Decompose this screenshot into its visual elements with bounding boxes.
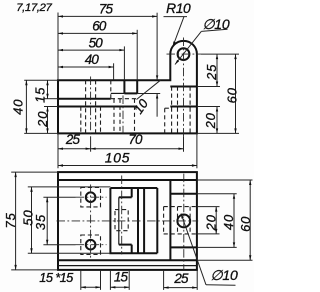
plan dimension 20 (215, 207, 217, 234)
svg-text:15: 15 (114, 269, 129, 284)
dimension 25 bottom (58, 148, 91, 150)
plan extension pocket corner down (163, 270, 165, 290)
front 10-dim leader (137, 80, 161, 99)
plan hole 2 axis h (76, 244, 107, 246)
extension line 75 (156, 13, 158, 81)
plan lug dashed rect (164, 206, 197, 208)
front hidden hole line b (95, 80, 97, 133)
plan central dashed pocket (115, 210, 128, 231)
plan extension 40 bottom (197, 246, 237, 248)
svg-text:60: 60 (238, 216, 253, 232)
plan lug hole hidden b (189, 207, 191, 234)
plan extension top left (11, 171, 58, 173)
front hidden central pocket a (113, 99, 115, 134)
front lug hole (178, 48, 190, 60)
front 20-step edge right part (170, 106, 197, 108)
plan extension slot top left (28, 186, 111, 188)
front central pocket axis (122, 96, 124, 137)
front lug shoulder edge (170, 86, 197, 88)
diameter leader top (175, 31, 201, 64)
extension lug axis down (183, 136, 185, 151)
svg-text:35: 35 (33, 214, 48, 230)
plan extension 60 top (197, 179, 253, 181)
plan lower 60-ext edge (58, 259, 197, 261)
plan lug hole hidden a (177, 207, 179, 234)
plan c-slot corner step b (131, 245, 133, 254)
front lug axis (183, 38, 185, 137)
front hidden lug left edge below shoulder (171, 87, 173, 134)
plan wall edge 157 (156, 188, 158, 253)
plan central pocket axis v (121, 176, 123, 255)
dimension 25 right (216, 54, 218, 86)
extension hole axis right (201, 53, 239, 55)
dimension 75 (58, 15, 157, 17)
svg-text:40: 40 (85, 52, 100, 67)
plan upper inner edge (58, 179, 197, 181)
extension line left edge up (57, 13, 59, 81)
extension line 50 (123, 46, 125, 80)
plan extension slot55 down (128, 270, 130, 290)
front hidden central pocket b (134, 99, 136, 134)
svg-text:25: 25 (65, 132, 81, 147)
svg-text:25: 25 (204, 64, 219, 81)
plan lug hole (177, 215, 190, 228)
front top slot right edge (136, 80, 138, 94)
svg-text:75: 75 (3, 212, 18, 228)
front 15-step edge (58, 98, 111, 100)
plan extension 20 bottom (197, 233, 220, 235)
dimension 60 (58, 32, 137, 34)
dimension 15 left (47, 80, 49, 99)
svg-text:20: 20 (203, 112, 218, 129)
plan hole 2 (86, 240, 96, 250)
plan lower thin edge (58, 265, 197, 267)
front hidden pocket line a (80, 107, 82, 134)
dimension 40 left (25, 80, 27, 133)
plan extension 40 top (197, 193, 237, 195)
svg-text:70: 70 (128, 132, 143, 147)
dimension 20 right (216, 107, 218, 134)
front hidden pocket line b (100, 107, 102, 134)
svg-text:20: 20 (204, 214, 219, 231)
plan dimension 25 (164, 287, 198, 289)
svg-text:∅10: ∅10 (202, 16, 230, 32)
front hidden base hole a (177, 87, 179, 134)
svg-text:40: 40 (10, 99, 25, 115)
plan dimension 75 (15, 172, 17, 270)
plan dimension 15 (110, 286, 129, 288)
dimension 50 (58, 49, 124, 51)
extension left edge down (57, 133, 59, 168)
svg-text:25: 25 (173, 271, 189, 286)
plan extension slot bottom left (28, 252, 111, 254)
plan lug hole axis v (183, 174, 185, 270)
front hidden slot edge 40 (110, 80, 112, 99)
dimension 70 (91, 148, 184, 150)
plan extension hole2 axis left (43, 244, 75, 246)
svg-text:15: 15 (33, 87, 48, 103)
plan extension sq right down (100, 270, 102, 290)
extension 15 left (44, 98, 58, 100)
plan right block 40-line top (170, 193, 197, 195)
plan extension sq left down (80, 270, 82, 290)
svg-text:R10: R10 (166, 1, 191, 16)
svg-text:50: 50 (89, 35, 104, 50)
front view body outline (58, 41, 197, 134)
plan wall edge 144 (143, 188, 145, 253)
plan c-slot step top (119, 196, 132, 198)
plan c-slot step bottom (119, 244, 132, 246)
svg-text:60: 60 (92, 19, 107, 34)
front left holes axis (90, 77, 92, 137)
plan holes axis v (90, 185, 92, 259)
front 20-step edge (58, 106, 137, 108)
plan dimension 50 (31, 187, 33, 253)
plan extension right edge down (196, 270, 198, 290)
plan hole 1 axis h (76, 196, 107, 198)
svg-text:∅10: ∅10 (210, 267, 238, 283)
extension shoulder right (197, 86, 220, 88)
plan dimension 40 (233, 194, 235, 248)
plan extension 60 bottom (197, 259, 253, 261)
plan extension slot40 down (109, 270, 111, 290)
dimension 40 (58, 66, 114, 68)
front 10-dim outside arrows (156, 94, 158, 117)
plan outline (58, 172, 197, 270)
extension bottom right (197, 132, 239, 134)
plan extension bottom left (11, 269, 58, 271)
svg-text:15 *15: 15 *15 (39, 270, 74, 285)
extension 20-line right (197, 106, 220, 108)
front 15-step hidden continuation (111, 98, 137, 100)
extension holes axis down (90, 136, 92, 151)
front lug hole horizontal axis (167, 53, 202, 55)
svg-text:75: 75 (99, 2, 114, 17)
front hidden base hole b (189, 87, 191, 134)
plan c-slot corner step a (131, 188, 133, 197)
front top slot left edge (123, 80, 125, 93)
svg-text:20: 20 (35, 111, 50, 128)
plan dimension 15x15 (81, 286, 101, 288)
extension top left (24, 79, 58, 81)
plan c-slot inner line (118, 197, 120, 244)
front top slot floor (124, 92, 137, 94)
plan hole 1 (86, 192, 96, 202)
plan pocket square 2 (81, 235, 101, 254)
diameter leader bottom (181, 214, 206, 285)
front slot floor extension (137, 93, 160, 95)
front hidden hole line a (85, 80, 87, 133)
plan wall edge 170 (169, 180, 171, 260)
plan main axis (57, 220, 199, 222)
front hidden inner edge (119, 99, 121, 134)
svg-text:7,17,27: 7,17,27 (16, 2, 52, 14)
plan c-slot outline (110, 188, 157, 253)
extension line 60 (136, 30, 138, 80)
svg-text:40: 40 (221, 214, 236, 230)
dimension 105 (58, 165, 197, 167)
plan extension 20 top (197, 206, 220, 208)
plan dimension 35 (46, 197, 48, 245)
extension bottom left (24, 132, 58, 134)
R10 leader (173, 17, 184, 47)
dimension 60 right (235, 54, 237, 133)
plan extension hole1 axis left (43, 196, 75, 198)
svg-text:60: 60 (224, 87, 239, 103)
extension right edge down (196, 133, 198, 168)
plan pocket square 1 (81, 188, 101, 207)
plan right block 40-line bottom (170, 246, 197, 248)
svg-text:105: 105 (105, 151, 130, 166)
dimension 20 left (47, 107, 49, 134)
front hidden lug pocket corner (165, 107, 171, 109)
plan dimension 60 (249, 180, 251, 260)
extension 20 left (44, 106, 58, 108)
extension line 40 (113, 63, 115, 80)
